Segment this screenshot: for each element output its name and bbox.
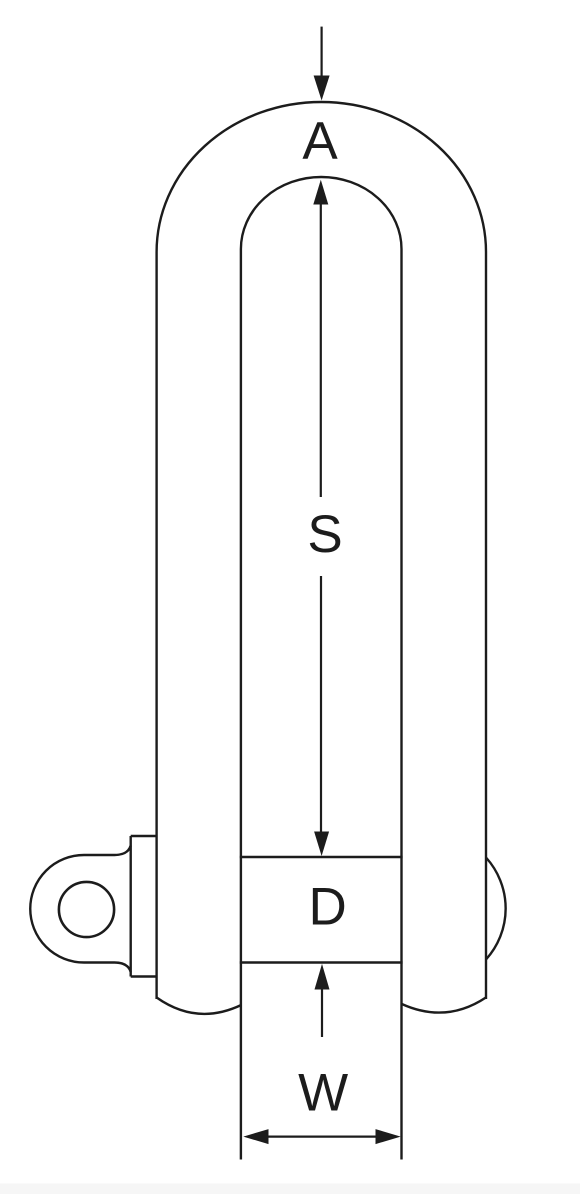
svg-text:W: W [298,1064,348,1123]
svg-text:D: D [309,878,347,937]
svg-text:A: A [302,112,338,171]
svg-text:S: S [307,505,342,564]
